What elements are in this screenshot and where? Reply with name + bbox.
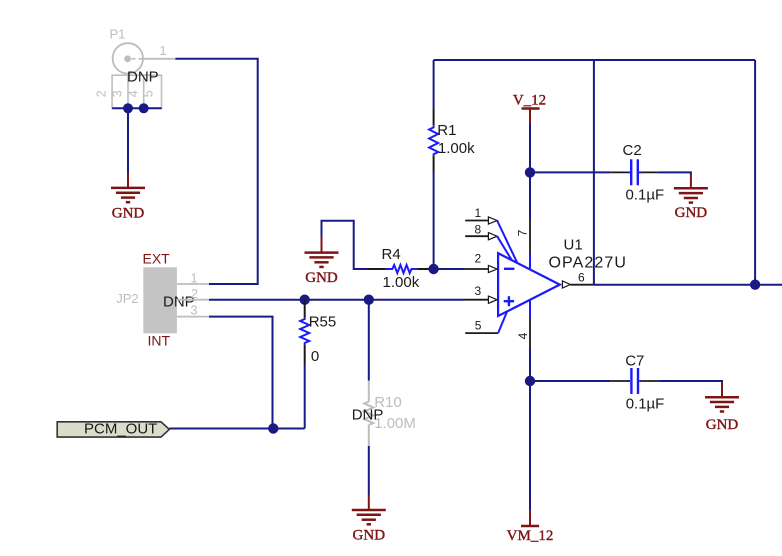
wire PCM_OUT [169,428,304,430]
connector JP2 [116,251,209,349]
node P1 pin4 junction [139,103,149,113]
svg-text:4: 4 [516,332,530,339]
svg-text:1.00k: 1.00k [383,274,420,291]
resistor R10 (DNP) [352,381,416,447]
svg-text:8: 8 [475,222,482,236]
svg-text:P1: P1 [110,27,126,42]
wire V+ to C2 [530,171,610,173]
node output junction [750,280,760,290]
svg-text:GND: GND [706,417,739,433]
svg-text:0.1µF: 0.1µF [626,396,665,413]
svg-text:INT: INT [148,333,171,349]
power VM_12 [507,511,554,544]
ground GND5 below R10 [352,495,386,544]
wire feedback vertical [593,60,595,285]
wire junction to op-amp pin2 [434,268,465,270]
svg-text:1: 1 [160,44,167,58]
pin 3 stub [465,284,498,304]
svg-text:PCM_OUT: PCM_OUT [84,421,157,438]
svg-text:C2: C2 [623,142,642,159]
wire R55 to PCM_OUT line [304,364,306,429]
net flag PCM_OUT [57,421,169,438]
wire right vertical [754,60,756,285]
node R10 top junction [364,295,374,305]
svg-text:V_12: V_12 [513,93,546,109]
wire V- to C7 [530,380,610,382]
svg-text:3: 3 [475,284,482,298]
resistor R55 [300,300,336,365]
resistor R1 [429,108,475,172]
svg-text:2: 2 [95,90,109,97]
wire R1 top [433,60,435,108]
svg-text:7: 7 [516,229,530,236]
svg-text:1: 1 [475,206,482,220]
wire P1 bottom bus [112,107,162,109]
wire C7 to ground [658,381,722,383]
pin 6 output [562,271,594,289]
wire GND2 to R4 [322,221,368,269]
svg-text:3: 3 [191,304,198,318]
wire top rail [434,59,755,61]
resistor R4 [367,246,434,291]
node V- junction [525,376,535,386]
wire pin4 to VM_12 [529,381,531,511]
wire R10 top [368,300,370,381]
svg-text:DNP: DNP [352,407,384,424]
svg-text:C7: C7 [625,353,644,370]
svg-text:2: 2 [191,287,198,301]
pin 8 stub [465,222,512,260]
svg-text:5: 5 [475,318,482,332]
wire P1 to ground [127,108,129,173]
connector P1 [95,27,176,109]
node R55 top junction [300,295,310,305]
svg-text:GND: GND [675,205,708,221]
svg-text:1: 1 [191,272,198,286]
svg-text:4: 4 [126,90,140,97]
pin 1 stub [465,206,517,262]
capacitor C2 [610,142,664,204]
svg-text:0.1µF: 0.1µF [626,187,665,204]
svg-text:R4: R4 [382,246,401,263]
node PCM junction [268,423,278,433]
svg-text:GND: GND [112,205,145,221]
power V_12 [513,93,546,124]
capacitor C7 [610,353,664,413]
wire R10 to ground [368,446,370,495]
svg-text:R1: R1 [437,122,456,139]
svg-text:OPA227U: OPA227U [549,255,628,272]
svg-text:2: 2 [475,252,482,266]
wire C2 to ground [658,172,691,175]
pin 4 line [516,301,530,382]
svg-text:5: 5 [142,90,156,97]
svg-text:6: 6 [578,271,585,285]
svg-text:R55: R55 [309,314,337,331]
ground GND3 right of C2 [674,173,708,221]
pin 7 line [516,123,531,269]
pin 5 stub [465,312,507,334]
ground GND4 right of C7 [705,382,739,433]
pin 2 stub [465,252,498,273]
svg-text:0: 0 [311,348,319,365]
wire P1 pin1 to JP2 pin1 [175,59,257,284]
svg-text:GND: GND [353,527,386,543]
svg-text:3: 3 [111,90,125,97]
node V+ junction [525,167,535,177]
wire JP2 pin2 to op-amp pin3 [209,299,465,301]
ground GND1 below P1 [111,173,145,222]
svg-text:JP2: JP2 [116,291,138,306]
svg-text:DNP: DNP [127,69,159,86]
wire output net [594,284,782,286]
ground GND2 near R4 [305,236,339,286]
svg-text:U1: U1 [564,237,583,254]
node R4/R1/pin2 junction [428,264,438,274]
wire R1 bottom [433,172,435,269]
node P1 pin3 junction [123,103,133,113]
svg-text:1.00k: 1.00k [438,140,475,157]
svg-text:EXT: EXT [143,251,171,267]
svg-text:VM_12: VM_12 [507,528,554,544]
wire JP2 pin3 down [209,317,273,429]
op-amp U1 [498,237,627,317]
svg-text:GND: GND [305,270,338,286]
